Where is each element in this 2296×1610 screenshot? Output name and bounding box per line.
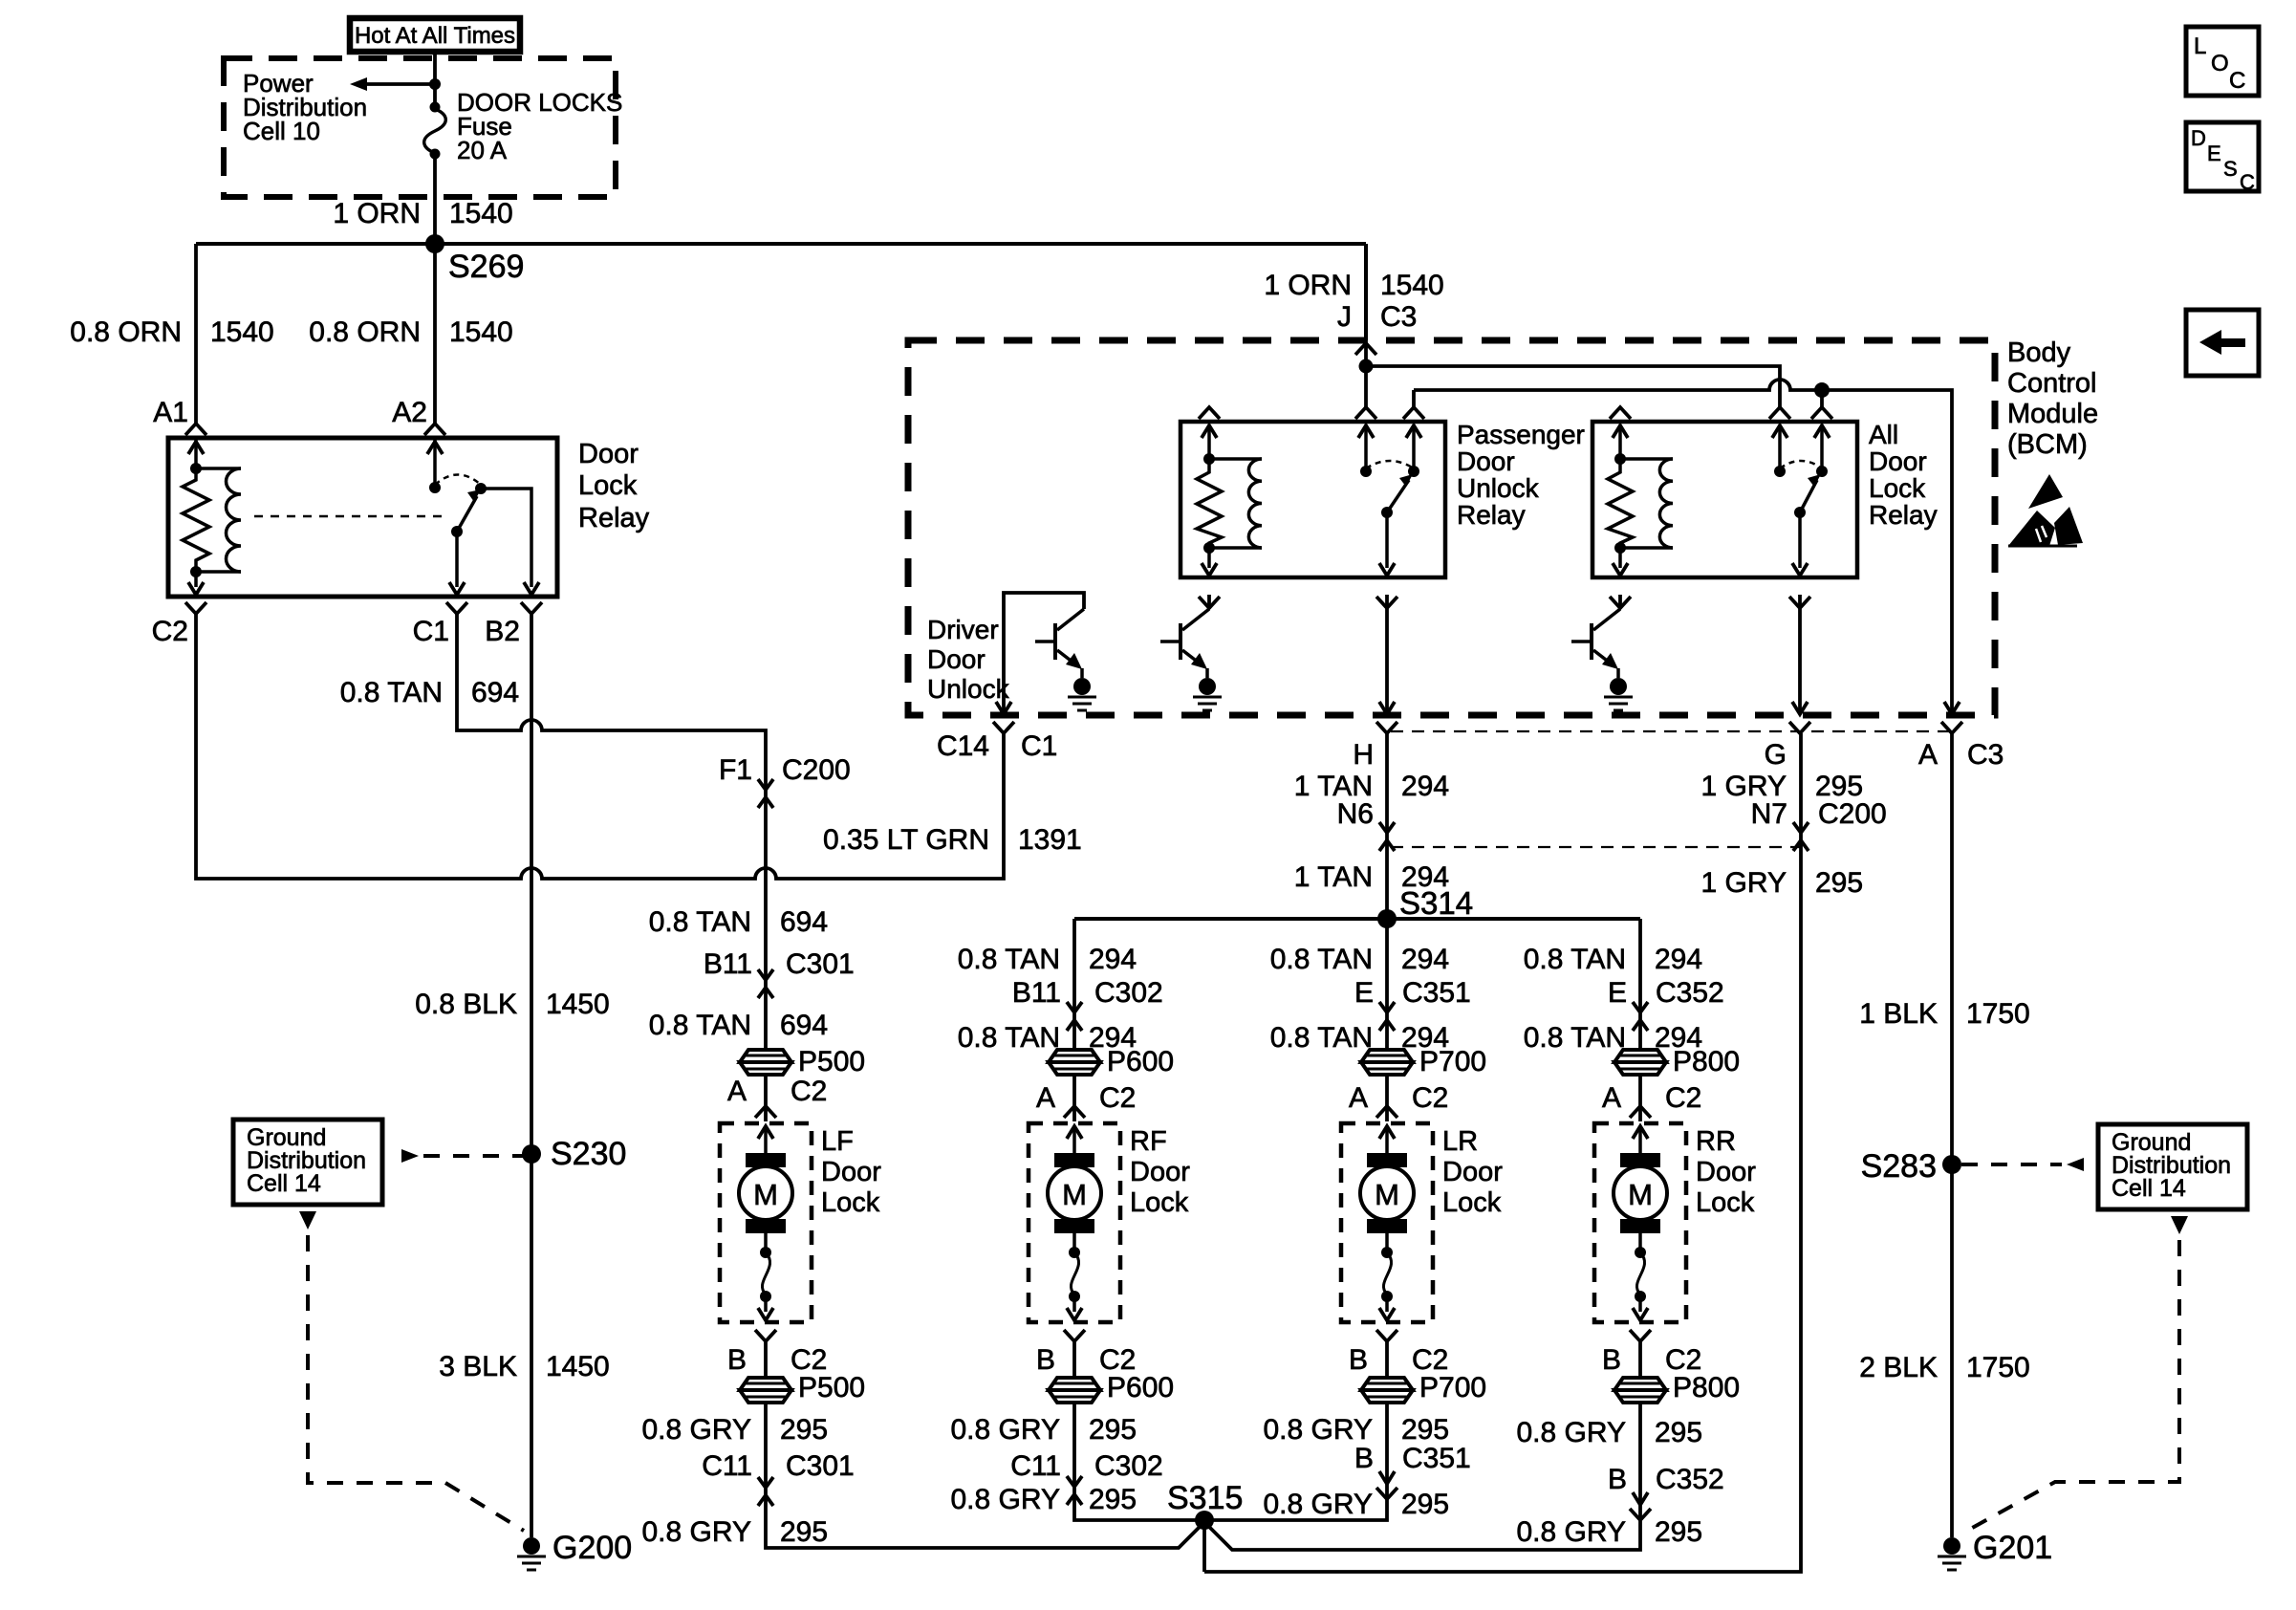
svg-text:1540: 1540 — [449, 198, 513, 229]
pin label B C351 — [1354, 1443, 1471, 1474]
svg-text:0.8 TAN: 0.8 TAN — [1270, 1022, 1373, 1054]
wire passenger relay coil to transistor Q2 — [1207, 595, 1211, 609]
svg-text:694: 694 — [780, 906, 828, 938]
svg-text:0.8 TAN: 0.8 TAN — [649, 1010, 751, 1041]
ground G200 — [517, 1530, 632, 1570]
svg-text:M: M — [1062, 1178, 1087, 1211]
pin C14 C1 chevron — [993, 722, 1014, 733]
wire J to junction — [1364, 340, 1368, 408]
wire label 0.8 TAN 694 — [340, 677, 519, 708]
back arrow box — [2186, 310, 2259, 376]
svg-text:Module: Module — [2007, 399, 2098, 429]
dashed link to S283 — [1961, 1158, 2084, 1171]
wire label 1 BLK 1750 — [1859, 998, 2029, 1030]
connector B C351 — [1376, 1471, 1397, 1499]
svg-text:1540: 1540 — [210, 316, 274, 348]
svg-text:Door: Door — [578, 439, 639, 469]
splice S315 — [1167, 1480, 1243, 1530]
wire relay C2 to BCM C14 (0.35 LT GRN 1391) — [196, 614, 1004, 879]
ESD sensitive device symbol — [2008, 474, 2083, 546]
splice S283 — [1861, 1148, 1961, 1185]
connector pin B C2 below LR motor — [1376, 1330, 1397, 1341]
svg-text:294: 294 — [1401, 944, 1449, 975]
svg-text:Door: Door — [1457, 446, 1515, 476]
Driver Door Unlock label — [927, 615, 1010, 704]
Power Distribution Cell 10 dashed box — [224, 58, 616, 197]
wire A to G201 (1 BLK 1750) — [1950, 733, 1954, 1537]
connector B11 C302 — [1067, 1002, 1082, 1031]
svg-text:RF: RF — [1130, 1126, 1167, 1157]
svg-text:C2: C2 — [152, 616, 188, 647]
svg-text:1540: 1540 — [1380, 270, 1444, 301]
svg-text:Unlock: Unlock — [927, 674, 1010, 704]
wire label 1 ORN 1540 — [333, 198, 512, 229]
connector pin B C2 below LF motor — [755, 1330, 776, 1341]
svg-text:Door: Door — [1869, 446, 1927, 476]
svg-text:0.8 BLK: 0.8 BLK — [415, 989, 517, 1020]
connector F1 C200 — [758, 779, 773, 808]
wire S314 to RR motor (0.8 TAN 294) — [1638, 919, 1642, 1049]
wire G output all door relay to BCM edge — [1792, 595, 1808, 714]
wire P500 to LF motor — [764, 1075, 768, 1121]
connector chevron at J — [1355, 343, 1376, 355]
svg-text:P600: P600 — [1107, 1372, 1174, 1403]
svg-text:0.8 GRY: 0.8 GRY — [1516, 1516, 1626, 1548]
wire label 0.8 TAN 294 (RR lower) — [1524, 1022, 1702, 1054]
svg-text:B11: B11 — [1012, 977, 1061, 1009]
svg-text:LF: LF — [821, 1126, 854, 1157]
ground at transistor driver door unlock Q1 — [1068, 678, 1096, 710]
Power Distribution Cell 10 label — [243, 69, 367, 145]
pin label J C3 — [1337, 301, 1417, 333]
wire P700 to LR motor — [1385, 1075, 1389, 1121]
svg-text:3 BLK: 3 BLK — [439, 1351, 517, 1382]
wire H to S314 (1 TAN 294) — [1385, 733, 1389, 919]
connector N6 C200 — [1379, 822, 1395, 851]
wire label 1 TAN 294 (below C200) — [1294, 861, 1449, 893]
DOOR LOCKS fuse 20 A — [424, 102, 446, 160]
pin label N7 C200 — [1751, 798, 1887, 830]
connector E C352 — [1633, 1002, 1648, 1031]
svg-text:C301: C301 — [786, 1450, 855, 1482]
svg-text:Lock: Lock — [1442, 1187, 1502, 1218]
svg-text:J: J — [1337, 301, 1352, 333]
svg-text:N7: N7 — [1751, 798, 1787, 830]
svg-text:(BCM): (BCM) — [2007, 429, 2088, 460]
wire label 0.8 GRY 295 (LF lower) — [641, 1516, 828, 1548]
svg-text:0.8 GRY: 0.8 GRY — [1263, 1414, 1373, 1446]
svg-text:All: All — [1869, 420, 1898, 449]
wire label 0.8 TAN 294 (RR upper) — [1524, 944, 1702, 975]
transistor passenger unlock driver Q2 — [1160, 609, 1209, 678]
svg-text:G: G — [1765, 739, 1787, 771]
LF door lock label — [821, 1126, 881, 1218]
svg-text:C351: C351 — [1402, 977, 1471, 1009]
NO riser passenger relay — [1412, 390, 1416, 408]
wire label 0.8 TAN 694 (LF upper) — [649, 906, 828, 938]
svg-text:B2: B2 — [485, 616, 520, 647]
Body Control Module dashed box — [908, 340, 1995, 715]
svg-text:P700: P700 — [1419, 1372, 1486, 1403]
svg-text:295: 295 — [780, 1414, 828, 1446]
splice S230 — [522, 1136, 626, 1172]
svg-text:0.8 TAN: 0.8 TAN — [649, 906, 751, 938]
wire label 0.8 TAN 694 (LF lower) — [649, 1010, 828, 1041]
pin label C1 — [413, 616, 449, 647]
wire label 1 GRY 295 (above C200) — [1701, 771, 1864, 802]
svg-text:Cell 14: Cell 14 — [247, 1170, 321, 1197]
svg-text:294: 294 — [1401, 771, 1449, 802]
svg-text:Door: Door — [821, 1157, 881, 1187]
ground at transistor all door lock driver Q3 — [1604, 678, 1633, 710]
wire label 1 TAN 294 (above C200) — [1294, 771, 1449, 802]
svg-text:A1: A1 — [153, 397, 188, 428]
svg-text:C302: C302 — [1094, 1450, 1163, 1482]
svg-text:C: C — [2229, 68, 2245, 94]
wire label 0.8 GRY 295 (LR lower) — [1263, 1489, 1449, 1520]
pin label E C352 — [1608, 977, 1724, 1009]
pin label C11 C301 — [702, 1450, 855, 1482]
splice S314 — [1377, 885, 1473, 928]
svg-text:Cell 10: Cell 10 — [243, 117, 320, 145]
power distribution branch arrow — [350, 77, 441, 91]
wire label 0.8 ORN 1540 (A2 branch) — [309, 316, 512, 348]
pin H chevron — [1376, 722, 1397, 733]
S314 distribution horizontal wire — [1074, 917, 1640, 921]
pin G chevron — [1789, 722, 1810, 733]
svg-text:C1: C1 — [413, 616, 449, 647]
wire G to S315 (1 GRY 295) — [1204, 733, 1801, 1572]
svg-text:A: A — [1349, 1082, 1368, 1114]
svg-text:294: 294 — [1089, 944, 1137, 975]
svg-text:Lock: Lock — [578, 470, 638, 501]
svg-text:Passenger: Passenger — [1457, 420, 1585, 449]
connector P500 (A side) — [740, 1046, 865, 1077]
svg-text:B: B — [727, 1344, 747, 1376]
svg-text:Hot At All Times: Hot At All Times — [355, 23, 515, 49]
svg-text:295: 295 — [1655, 1516, 1702, 1548]
svg-text:LR: LR — [1442, 1126, 1478, 1157]
RR door lock motor assembly dashed box — [1594, 1123, 1686, 1322]
svg-text:Door: Door — [1130, 1157, 1190, 1187]
connector P800 (A side) — [1614, 1046, 1740, 1077]
svg-text:1391: 1391 — [1018, 824, 1082, 856]
pin label A C2 at RF — [1036, 1082, 1136, 1114]
svg-text:295: 295 — [1815, 867, 1863, 899]
connector chevron at A2 — [424, 424, 445, 435]
pin label B C352 — [1608, 1464, 1724, 1495]
wire driver transistor to pin C14 — [996, 593, 1084, 714]
svg-text:0.8 GRY: 0.8 GRY — [1516, 1417, 1626, 1448]
svg-text:M: M — [1628, 1178, 1653, 1211]
RF motor M — [1048, 1126, 1101, 1233]
svg-text:1 GRY: 1 GRY — [1701, 867, 1787, 899]
svg-text:B: B — [1036, 1344, 1055, 1376]
svg-text:O: O — [2211, 51, 2229, 76]
connector pin A C2 at LR motor — [1376, 1106, 1397, 1118]
svg-text:B: B — [1354, 1443, 1374, 1474]
pin A chevron — [1941, 722, 1962, 733]
Door Lock Relay coil-switch dashed link — [254, 515, 445, 518]
wire label 0.8 GRY 295 (LF upper) — [641, 1414, 828, 1446]
svg-text:H: H — [1353, 739, 1374, 771]
svg-text:Unlock: Unlock — [1457, 473, 1540, 503]
wire label 0.8 BLK 1450 — [415, 989, 610, 1020]
connector pin A C2 at RR motor — [1630, 1106, 1651, 1118]
svg-text:20 A: 20 A — [457, 136, 508, 164]
wire passenger NO riser to A column — [1414, 380, 1952, 714]
wire all door relay coil to transistor Q3 — [1618, 595, 1622, 609]
svg-text:2 BLK: 2 BLK — [1859, 1352, 1938, 1383]
svg-text:0.8 TAN: 0.8 TAN — [1270, 944, 1373, 975]
svg-text:Relay: Relay — [1869, 500, 1938, 530]
svg-text:G200: G200 — [552, 1530, 632, 1566]
svg-text:C200: C200 — [782, 754, 851, 786]
DESC reference box — [2186, 122, 2259, 194]
pin label B C2 below LR motor — [1349, 1344, 1448, 1376]
pin label B C2 below RF motor — [1036, 1344, 1136, 1376]
splice S269 — [425, 234, 524, 285]
svg-text:295: 295 — [1401, 1489, 1449, 1520]
svg-text:295: 295 — [1655, 1417, 1702, 1448]
RF motor internal switch — [1067, 1233, 1082, 1320]
svg-text:Control: Control — [2007, 368, 2097, 399]
svg-text:C2: C2 — [1665, 1082, 1701, 1114]
svg-text:P700: P700 — [1419, 1046, 1486, 1077]
svg-text:1750: 1750 — [1966, 1352, 2030, 1383]
pin label C11 C302 — [1010, 1450, 1163, 1482]
svg-text:M: M — [1375, 1178, 1399, 1211]
svg-text:0.8 TAN: 0.8 TAN — [340, 677, 443, 708]
svg-text:C: C — [2240, 170, 2255, 194]
svg-text:295: 295 — [1089, 1484, 1137, 1515]
svg-text:C352: C352 — [1656, 977, 1724, 1009]
svg-text:295: 295 — [1089, 1414, 1137, 1446]
pin label G — [1765, 739, 1787, 771]
connector C11 C302 — [1067, 1476, 1082, 1505]
wire label 2 BLK 1750 — [1859, 1352, 2029, 1383]
svg-text:C11: C11 — [1010, 1450, 1061, 1482]
pin label A1 — [153, 397, 188, 428]
wire label 0.8 TAN 294 (RF upper) — [958, 944, 1137, 975]
svg-text:E: E — [1354, 977, 1374, 1009]
svg-text:C302: C302 — [1094, 977, 1163, 1009]
svg-text:0.8 TAN: 0.8 TAN — [1524, 944, 1626, 975]
svg-text:S283: S283 — [1861, 1148, 1937, 1185]
Passenger relay coil — [1197, 407, 1262, 608]
wire label 0.8 TAN 294 (RF lower) — [958, 1022, 1137, 1054]
svg-text:A2: A2 — [392, 397, 427, 428]
svg-text:S269: S269 — [448, 249, 524, 285]
svg-text:0.8 TAN: 0.8 TAN — [958, 1022, 1060, 1054]
C200 connector dashed line top — [1391, 730, 1952, 732]
junction dot at all door NO riser — [1814, 382, 1830, 408]
relay bottom pin chevrons C2 C1 B2 — [185, 602, 542, 614]
svg-text:Door: Door — [1442, 1157, 1503, 1187]
transistor driver door unlock Q1 — [1035, 609, 1084, 678]
wire label 1 GRY 295 (below C200) — [1701, 867, 1864, 899]
svg-text:A: A — [1918, 739, 1938, 771]
svg-text:B11: B11 — [704, 948, 752, 980]
wire label 0.8 GRY 295 (RR lower) — [1516, 1516, 1702, 1548]
connector P700 (B side) — [1361, 1372, 1486, 1403]
pin label C14 C1 — [937, 730, 1057, 762]
svg-text:694: 694 — [780, 1010, 828, 1041]
LOC reference box — [2186, 27, 2259, 96]
svg-text:Door: Door — [1696, 1157, 1756, 1187]
Door Lock Relay switch — [427, 438, 539, 595]
pin label C2 — [152, 616, 188, 647]
svg-text:Door: Door — [927, 644, 986, 674]
ground G201 — [1938, 1530, 2052, 1570]
svg-text:N6: N6 — [1337, 798, 1374, 830]
svg-text:C3: C3 — [1380, 301, 1417, 333]
svg-text:G201: G201 — [1973, 1530, 2052, 1566]
svg-text:0.8 GRY: 0.8 GRY — [950, 1484, 1060, 1515]
wire RF motor to S315 — [1074, 1341, 1204, 1520]
wire J junction to all door lock relay common — [1366, 366, 1780, 408]
pin label H — [1353, 739, 1374, 771]
Body Control Module label — [2007, 337, 2098, 460]
connector P500 (B side) — [740, 1372, 865, 1403]
svg-text:S230: S230 — [551, 1136, 626, 1172]
wire S269 to relay pin A1 — [194, 244, 198, 424]
svg-text:0.8 TAN: 0.8 TAN — [958, 944, 1060, 975]
svg-text:B: B — [1602, 1344, 1621, 1376]
connector pin B C2 below RR motor — [1630, 1330, 1651, 1341]
svg-text:C301: C301 — [786, 948, 855, 980]
connector B11 C301 — [758, 969, 773, 998]
svg-text:Relay: Relay — [578, 503, 650, 533]
Hot At All Times box — [350, 18, 520, 52]
svg-text:1540: 1540 — [449, 316, 513, 348]
pin label A2 — [392, 397, 427, 428]
DOOR LOCKS fuse label — [457, 88, 622, 164]
wire label 0.8 TAN 294 (LR lower) — [1270, 1022, 1449, 1054]
wire S269 to relay pin A2 — [433, 244, 437, 424]
wire LF motor to S315 (0.8 GRY 295) — [766, 1341, 1204, 1548]
All Door relay coil — [1608, 407, 1673, 608]
C200 connector dashed line bottom — [1391, 846, 1801, 848]
RR motor internal switch — [1633, 1233, 1648, 1320]
svg-text:E: E — [2207, 141, 2221, 165]
A column arrowhead at BCM edge — [1944, 702, 1960, 714]
connector pin A C2 at RF motor — [1064, 1106, 1085, 1118]
svg-text:0.8 GRY: 0.8 GRY — [950, 1414, 1060, 1446]
wire relay B2 to G200 (ground path) — [530, 614, 533, 1537]
svg-text:C14: C14 — [937, 730, 989, 762]
svg-text:S: S — [2223, 157, 2238, 181]
pin label B11 C302 — [1012, 977, 1163, 1009]
svg-text:P500: P500 — [798, 1046, 865, 1077]
connector C11 C301 — [758, 1477, 773, 1506]
wire LR motor to S315 — [1204, 1341, 1387, 1520]
LR door lock label — [1442, 1126, 1503, 1218]
svg-text:C352: C352 — [1656, 1464, 1724, 1495]
svg-text:C2: C2 — [1099, 1082, 1136, 1114]
connector P600 (A side) — [1049, 1046, 1174, 1077]
svg-text:P500: P500 — [798, 1372, 865, 1403]
pin label B C2 below RR motor — [1602, 1344, 1701, 1376]
wire label 0.8 GRY 295 (RR upper) — [1516, 1417, 1702, 1448]
Passenger Door Unlock Relay label — [1457, 420, 1585, 530]
RF door lock label — [1130, 1126, 1190, 1218]
svg-text:694: 694 — [471, 677, 519, 708]
svg-text:B: B — [1608, 1464, 1627, 1495]
dashed ground path to G201 — [1967, 1216, 2188, 1531]
svg-text:Lock: Lock — [1696, 1187, 1755, 1218]
pin label B2 — [485, 616, 520, 647]
wire P800 to RR motor — [1638, 1075, 1642, 1121]
pin label N6 — [1337, 798, 1374, 830]
svg-text:RR: RR — [1696, 1126, 1736, 1157]
svg-text:C2: C2 — [791, 1076, 827, 1107]
junction dot below J — [1359, 359, 1374, 374]
RR door lock label — [1696, 1126, 1756, 1218]
wire from Hot At All Times to fuse — [433, 51, 437, 105]
LF door lock motor assembly dashed box — [720, 1123, 812, 1322]
Door Lock Relay coil resistor combo — [183, 438, 241, 595]
svg-text:C200: C200 — [1818, 798, 1887, 830]
wire S314 to RF motor (0.8 TAN 294) — [1072, 919, 1076, 1049]
wire label 3 BLK 1450 — [439, 1351, 609, 1382]
svg-text:P800: P800 — [1673, 1046, 1740, 1077]
wire relay C1 to LF door lock column (0.8 TAN 694) — [457, 614, 766, 1049]
All Door relay switch — [1769, 407, 1832, 608]
pin label A C2 at LF — [727, 1076, 827, 1107]
svg-text:B: B — [1349, 1344, 1368, 1376]
Ground Distribution Cell 14 box (left) — [233, 1120, 382, 1205]
wire S314 to LR motor (0.8 TAN 294) — [1385, 919, 1389, 1049]
wire label 0.8 TAN 294 (LR upper) — [1270, 944, 1449, 975]
Passenger relay switch — [1355, 407, 1424, 608]
dashed ground path to G200 — [299, 1211, 524, 1531]
svg-text:C3: C3 — [1967, 739, 2004, 771]
svg-text:1 ORN: 1 ORN — [1264, 270, 1352, 301]
svg-text:P800: P800 — [1673, 1372, 1740, 1403]
connector pin A C2 at LF motor — [755, 1106, 776, 1118]
ground at transistor passenger unlock driver Q2 — [1193, 678, 1222, 710]
Door Lock Relay label — [578, 439, 650, 533]
svg-text:1450: 1450 — [546, 1351, 610, 1382]
svg-text:0.8 GRY: 0.8 GRY — [1263, 1489, 1373, 1520]
wire label 1 ORN 1540 at J — [1264, 270, 1443, 301]
svg-text:C1: C1 — [1021, 730, 1057, 762]
pin label F1 C200 — [719, 754, 851, 786]
wire label 0.8 GRY 295 (RF lower) — [950, 1484, 1137, 1515]
svg-text:Cell 14: Cell 14 — [2112, 1175, 2186, 1202]
svg-text:295: 295 — [1401, 1414, 1449, 1446]
pin label B11 C301 — [704, 948, 855, 980]
LR motor internal switch — [1379, 1233, 1395, 1320]
connector N7 C200 — [1793, 822, 1809, 851]
LF motor internal switch — [758, 1233, 773, 1320]
wire fuse to S269 — [433, 157, 437, 244]
wire H output passenger relay to BCM edge — [1379, 595, 1395, 714]
svg-text:1450: 1450 — [546, 989, 610, 1020]
LR motor M — [1360, 1126, 1414, 1233]
Door Lock Relay box — [168, 438, 557, 597]
svg-text:Body: Body — [2007, 337, 2071, 368]
pin label E C351 — [1354, 977, 1471, 1009]
wire RR motor to S315 — [1204, 1341, 1640, 1550]
svg-text:1750: 1750 — [1966, 998, 2030, 1030]
svg-text:E: E — [1608, 977, 1627, 1009]
svg-text:C351: C351 — [1402, 1443, 1471, 1474]
svg-text:0.8 GRY: 0.8 GRY — [641, 1516, 751, 1548]
svg-text:295: 295 — [780, 1516, 828, 1548]
svg-text:A: A — [1602, 1082, 1621, 1114]
